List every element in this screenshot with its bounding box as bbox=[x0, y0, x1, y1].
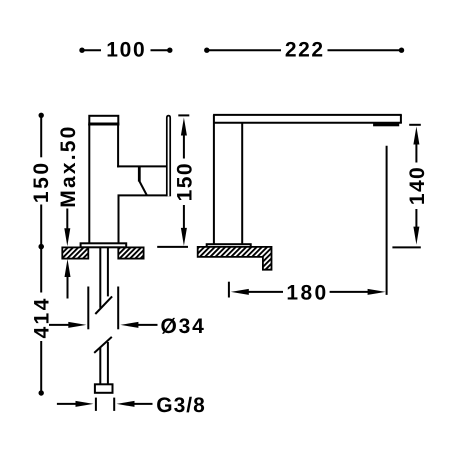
dimension 414: bottom dot bbox=[39, 390, 44, 395]
dimension G3/8: left arrow line bbox=[57, 403, 79, 405]
dimension 140: up arrowhead bbox=[413, 127, 419, 145]
dimension 180: left line bbox=[246, 291, 283, 293]
dimension 180: right line bbox=[330, 291, 369, 293]
pipe break outer right line bbox=[117, 287, 119, 330]
dimension 100 line left segment bbox=[82, 49, 101, 51]
supply pipe right line lower bbox=[107, 342, 109, 384]
svg-text:150: 150 bbox=[30, 160, 53, 203]
dimension 100 line right segment bbox=[151, 49, 170, 51]
dimension 414: lower line bbox=[40, 341, 42, 393]
side view: horizontal line under lever (line A) bbox=[117, 165, 167, 167]
dimension 150 right: up arrowhead bbox=[181, 118, 187, 136]
front view: spout underside line bbox=[214, 122, 402, 124]
dimension G3/8: left arrowhead bbox=[76, 401, 94, 407]
side view: body right edge upper bbox=[117, 124, 119, 167]
svg-text:222: 222 bbox=[285, 38, 325, 61]
dimension Max.50 down arrowhead bbox=[64, 228, 70, 246]
dimension O34: right arrow line bbox=[136, 324, 158, 326]
dimension 414: upper line bbox=[40, 247, 42, 293]
dimension 150 left: upper line bbox=[40, 115, 42, 157]
dimension Max.50 leader line bbox=[66, 209, 68, 233]
dimension 414: top dot bbox=[39, 244, 44, 249]
side view: cartridge wedge diagonal bbox=[139, 181, 147, 195]
side view: spout cap thick bottom band bbox=[88, 123, 119, 126]
dimension 150 right: top tick bbox=[178, 114, 189, 116]
dimension 100 right dot bbox=[167, 48, 172, 53]
dimension G3/8: right tick bbox=[113, 398, 115, 411]
svg-text:140: 140 bbox=[406, 166, 429, 205]
svg-text:100: 100 bbox=[106, 38, 146, 61]
dimension 180: left arrowhead bbox=[231, 289, 249, 295]
side view: body right edge lower bbox=[118, 195, 120, 243]
dimension 140: bottom tick bbox=[392, 246, 420, 248]
svg-text:G3/8: G3/8 bbox=[156, 394, 206, 417]
dimension O34: left arrow line bbox=[49, 324, 71, 326]
dimension G3/8: right arrow line bbox=[132, 403, 153, 405]
dimension 140: upper line bbox=[415, 142, 417, 163]
dimension 222 right dot bbox=[399, 48, 404, 53]
front view: counter slab with front lip, hatched bbox=[198, 247, 272, 270]
dimension 150 left: top dot bbox=[39, 113, 44, 118]
side view: spout cap outline bbox=[89, 116, 118, 125]
dimension 100 left dot bbox=[79, 48, 84, 53]
dimension 180: right arrowhead bbox=[368, 289, 386, 295]
side view: cartridge wedge vertical bbox=[138, 166, 141, 181]
dimension 180: left tick bbox=[228, 282, 230, 298]
counter bottom up arrowhead bbox=[65, 259, 71, 277]
dimension 140: top tick bbox=[409, 124, 421, 126]
front view: spout top line bbox=[213, 114, 402, 116]
counter line segment between views bbox=[157, 246, 188, 248]
svg-text:180: 180 bbox=[286, 281, 328, 304]
side view: horizontal line at lever bottom (line B) bbox=[118, 194, 171, 196]
dimension 140: lower line bbox=[415, 209, 417, 230]
dimension 222 line right segment bbox=[328, 49, 402, 51]
dimension 150 right: lower line bbox=[183, 205, 185, 231]
front view: spout right end bbox=[400, 115, 402, 123]
svg-text:Ø34: Ø34 bbox=[161, 315, 206, 338]
supply pipe left line lower bbox=[99, 348, 101, 385]
dimension 222 left dot bbox=[204, 48, 209, 53]
dimension 150 right: down arrowhead bbox=[181, 228, 187, 246]
front view: body right edge bbox=[241, 123, 243, 245]
pipe break outer left line bbox=[87, 287, 89, 330]
dimension O34: right arrowhead bbox=[120, 322, 138, 328]
dimension 150 right: upper line bbox=[183, 133, 185, 159]
side view: lever blade bbox=[167, 116, 170, 197]
svg-text:Max.50: Max.50 bbox=[57, 124, 80, 207]
dimension 180: extension line from spout tip bbox=[386, 146, 388, 295]
dimension G3/8: left tick bbox=[95, 398, 97, 411]
svg-text:414: 414 bbox=[31, 296, 54, 338]
pipe break upper slash bbox=[95, 296, 112, 314]
front view: aerator black band bbox=[373, 123, 399, 126]
counter bottom arrow tail bbox=[67, 274, 69, 299]
dimension G3/8: right arrowhead bbox=[117, 401, 135, 407]
supply pipe left line upper bbox=[99, 247, 101, 308]
dimension O34: left arrowhead bbox=[68, 322, 86, 328]
svg-text:150: 150 bbox=[173, 162, 196, 201]
dimension 150 left: lower line bbox=[40, 205, 42, 247]
front view: base plate bbox=[207, 244, 251, 247]
side view: base plate bbox=[81, 243, 127, 247]
side view: body left edge bbox=[88, 124, 90, 244]
supply pipe right line upper bbox=[107, 247, 109, 296]
side view: counter right hatch block bbox=[118, 247, 143, 258]
dimension 222 line left segment bbox=[207, 49, 281, 51]
G3/8 connector box bbox=[95, 384, 113, 393]
side view: counter left hatch block bbox=[62, 247, 88, 258]
dimension 150 left: bottom dot bbox=[39, 244, 44, 249]
front view: body left edge bbox=[213, 115, 215, 244]
dimension 140: down arrowhead bbox=[413, 227, 419, 245]
pipe break lower slash bbox=[94, 337, 112, 353]
